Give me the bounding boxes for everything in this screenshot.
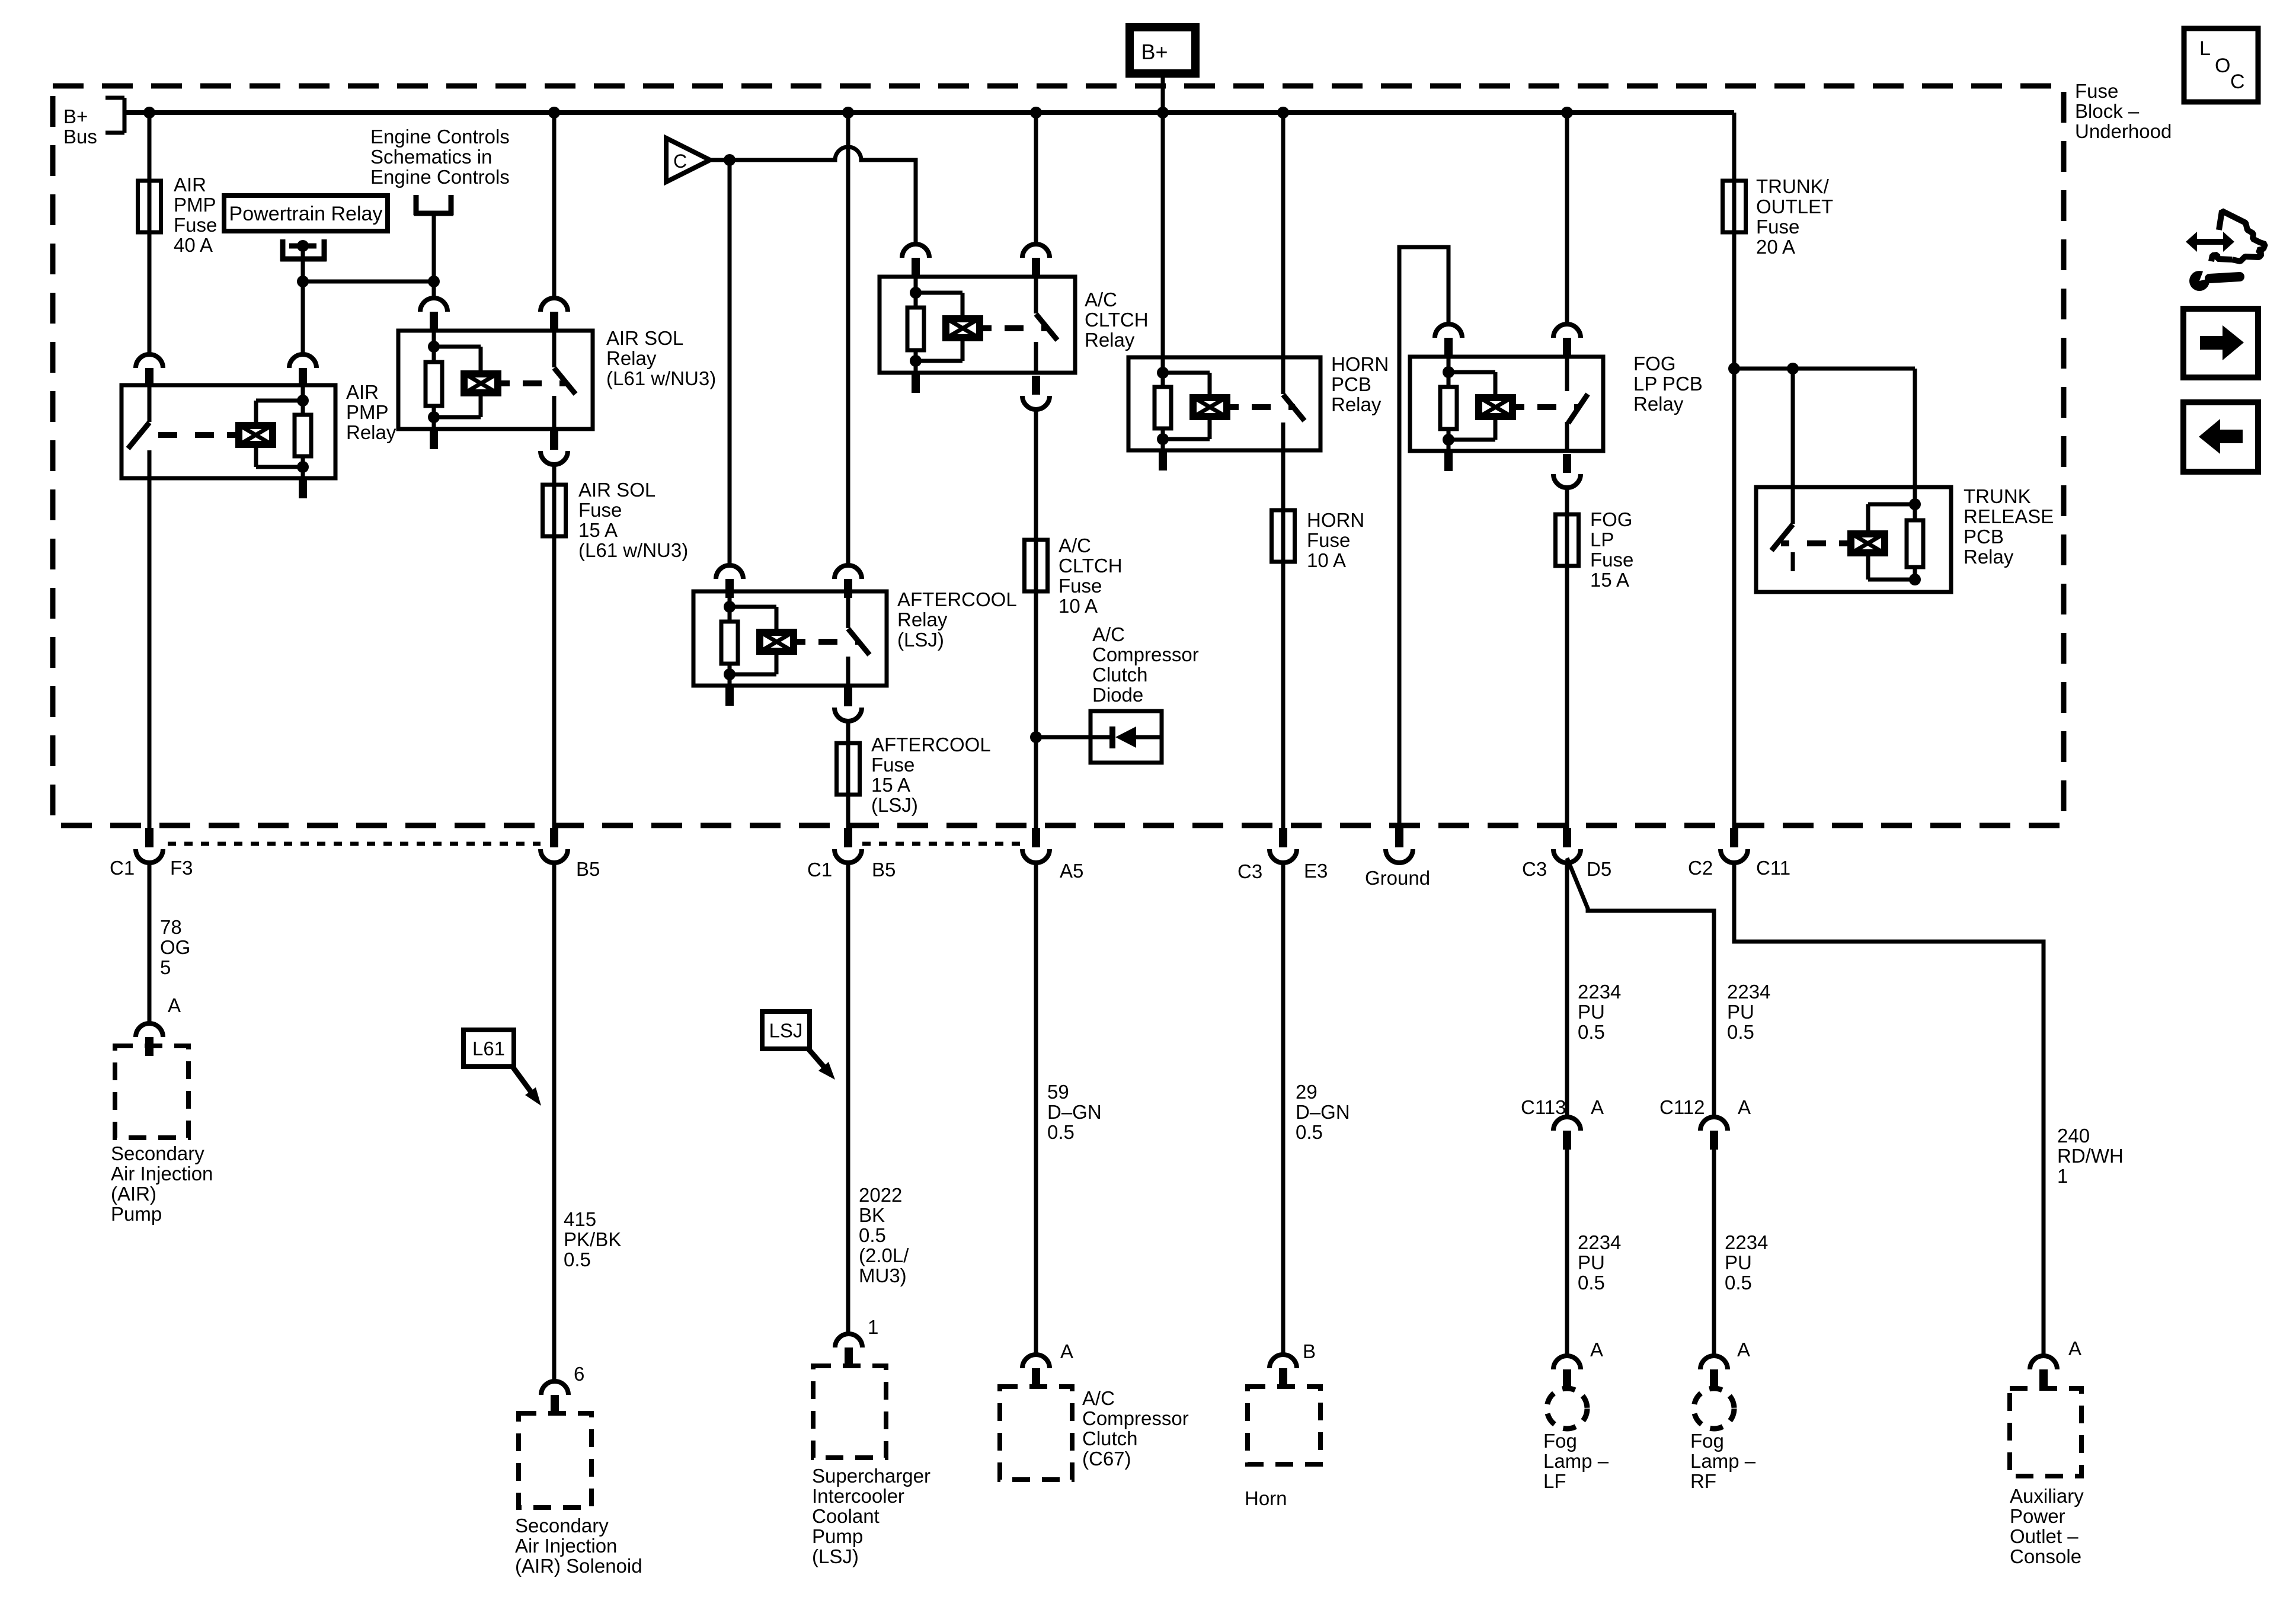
label: AIR PMP Relay [346,381,396,443]
pin: below AIR SOL relay switch [541,431,568,465]
svg-text:Fuse: Fuse [1590,549,1633,571]
svg-text:Fuse: Fuse [871,754,914,776]
wire: to AFTERCOOL fuse [846,721,850,743]
svg-text:RELEASE: RELEASE [1964,505,2054,527]
svg-text:Engine Controls: Engine Controls [370,166,510,188]
svg-text:B5: B5 [872,859,896,881]
fuse block underhood dashed boundary [53,86,2064,825]
svg-text:OG: OG [160,936,190,958]
pin A of A/C compressor clutch [1022,1355,1050,1387]
svg-text:Fuse: Fuse [174,214,217,236]
svg-text:A: A [1737,1339,1750,1361]
pin label A [1590,1339,1603,1361]
wire: AIR PMP fuse to relay pin [148,232,152,354]
pin label A [1738,1096,1751,1118]
svg-text:PMP: PMP [174,194,216,216]
fuse FOG LP Fuse 15 A [1556,514,1579,566]
wire: B+ feed down to HORN relay coil [1161,73,1165,373]
label: HORN Fuse 10 A [1307,509,1364,571]
icon: LOC reference box [2184,28,2258,102]
relay TRUNK RELEASE PCB Relay [1756,487,1951,592]
wire: connector C11 to auxiliary power outlet [1734,864,2044,1356]
pin: AIR PMP relay coil [289,354,316,387]
svg-text:LP: LP [1590,529,1614,550]
svg-text:A/C: A/C [1059,534,1091,556]
B+ power terminal box [1130,27,1195,73]
pin: AFTERCOOL relay switch [834,565,862,598]
label Ground [1365,867,1430,889]
svg-text:E3: E3 [1304,860,1328,882]
svg-text:A5: A5 [1060,860,1083,882]
svg-text:PCB: PCB [1331,373,1371,395]
wire label 2234 PU 0.5 (RF upper) [1727,981,1770,1043]
svg-text:Auxiliary: Auxiliary [2010,1485,2084,1507]
pin A of fog lamp LF [1553,1356,1581,1388]
wire: HORN relay to HORN fuse [1281,450,1285,510]
pin label C11 [1756,857,1790,879]
svg-text:5: 5 [160,956,171,978]
pin label A [168,994,181,1016]
label: AIR SOL Fuse 15 A (L61 w/NU3) [578,479,688,561]
svg-text:0.5: 0.5 [1047,1121,1075,1143]
pin A of connector C112 [1700,1117,1728,1150]
svg-text:C113: C113 [1521,1096,1566,1118]
pin label E3 [1304,860,1328,882]
fuse AIR PMP Fuse 40 A [138,181,161,232]
wire: powertrain relay to AIR PMP relay coil [301,246,305,354]
svg-text:Schematics in: Schematics in [370,146,492,168]
svg-text:CLTCH: CLTCH [1059,555,1123,577]
svg-text:10 A: 10 A [1059,595,1098,617]
component: A/C Compressor Clutch (dashed box) [1000,1387,1072,1480]
wire: connector D5 to C112 (diagonal + across) [1567,858,1714,1118]
svg-text:Powertrain Relay: Powertrain Relay [229,203,383,225]
svg-text:LP PCB: LP PCB [1633,373,1703,395]
svg-text:20 A: 20 A [1756,236,1795,258]
wire label 240 RD/WH 1 [2057,1125,2124,1187]
svg-text:59: 59 [1047,1081,1069,1103]
svg-text:Relay: Relay [1085,329,1135,351]
node C (triangle off-page connector) [666,138,710,182]
wire: to AIR SOL fuse [552,465,557,485]
B+ Bus bracket symbol [105,98,124,133]
svg-text:PK/BK: PK/BK [564,1228,621,1250]
pin 1 of supercharger pump [835,1334,862,1366]
svg-text:0.5: 0.5 [1725,1272,1752,1294]
svg-text:6: 6 [574,1363,584,1385]
svg-text:PMP: PMP [346,401,389,423]
relay FOG LP PCB Relay [1410,357,1603,471]
junction bus/AFTERCOOL relay [842,107,854,119]
wire: to A/C compressor clutch diode [1036,735,1091,740]
wire: connector D5 to C113 [1565,864,1569,1117]
wire: connector E3 to horn [1281,864,1285,1355]
junction trunk relay switch feed [1787,363,1799,375]
svg-text:Console: Console [2010,1545,2081,1567]
pin: below AFTERCOOL relay switch [834,687,862,721]
svg-text:(C67): (C67) [1082,1448,1131,1470]
wire: to A/C CLTCH fuse [1034,409,1038,540]
connector pin B5 at fuse block boundary [541,828,568,863]
pin label 1 [868,1316,878,1338]
svg-text:D5: D5 [1587,858,1611,880]
callout LSJ [762,1012,835,1080]
pin label 6 [574,1363,584,1385]
svg-text:Underhood: Underhood [2075,120,2172,142]
wire: connector B5 to AIR solenoid [552,864,557,1381]
svg-text:0.5: 0.5 [1296,1121,1323,1143]
icon: arrow left box [2183,402,2258,472]
svg-text:PU: PU [1727,1001,1754,1023]
svg-text:Lamp –: Lamp – [1543,1450,1609,1472]
svg-text:TRUNK: TRUNK [1964,485,2031,507]
svg-text:Secondary: Secondary [111,1142,204,1164]
svg-text:Fuse: Fuse [2075,80,2118,102]
label: A/C Compressor Clutch Diode [1092,623,1199,706]
svg-text:C3: C3 [1522,858,1547,880]
svg-text:Relay: Relay [1964,546,2014,568]
svg-text:15 A: 15 A [578,519,618,541]
wire: to trunk relay switch [1791,369,1795,487]
svg-text:A: A [1591,1096,1604,1118]
label: HORN PCB Relay [1331,353,1389,415]
pin label C3 [1522,858,1547,880]
svg-text:B: B [1303,1340,1316,1362]
svg-text:(2.0L/: (2.0L/ [859,1244,909,1266]
relay AIR SOL Relay [398,331,593,449]
wire: HORN fuse to connector C3/E3 [1281,562,1285,828]
pin: AIR SOL relay coil [420,298,447,331]
wire label 2234 PU 0.5 (LF lower) [1578,1231,1621,1294]
svg-text:AIR: AIR [174,174,206,196]
junction trunk fuse / trunk relay feed [1728,363,1740,375]
svg-text:Bus: Bus [63,126,97,148]
pin label A [1060,1340,1073,1362]
svg-text:L: L [2199,37,2211,60]
fuse AFTERCOOL Fuse 15 A [837,743,860,795]
callout L61 [463,1030,541,1106]
junction engine controls wire [428,276,440,287]
wire: AIR SOL fuse to connector B5 [552,536,557,828]
svg-text:A: A [1060,1340,1073,1362]
svg-text:Fog: Fog [1690,1430,1724,1452]
pin label A5 [1060,860,1083,882]
pin A of fog lamp RF [1700,1356,1728,1388]
pin label C3 [1237,860,1262,882]
svg-text:(L61 w/NU3): (L61 w/NU3) [606,367,716,389]
svg-text:Secondary: Secondary [515,1515,609,1537]
svg-text:C2: C2 [1688,857,1713,879]
wire: to FOG LP fuse [1565,488,1569,514]
label: Engine Controls Schematics [370,126,510,188]
label: Fog Lamp - RF [1690,1430,1756,1492]
wire: engine controls to AIR SOL relay coil [432,215,436,298]
wire: bus to A/C CLTCH relay switch [1034,113,1038,244]
label: FOG LP Fuse 15 A [1590,508,1633,591]
svg-text:Coolant: Coolant [812,1505,880,1527]
svg-text:RF: RF [1690,1470,1716,1492]
svg-text:L61: L61 [472,1038,505,1060]
junction bus/AIR PMP fuse [143,107,155,119]
svg-text:FOG: FOG [1590,508,1633,530]
pin label C2 [1688,857,1713,879]
pin: AIR PMP relay switch [136,354,163,387]
svg-text:1: 1 [2057,1165,2068,1187]
junction bus/AC CLTCH relay [1030,107,1042,119]
svg-text:0.5: 0.5 [564,1249,591,1270]
fuse A/C CLTCH Fuse 10 A [1025,540,1048,591]
svg-text:Diode: Diode [1092,684,1143,706]
svg-text:C: C [2230,71,2245,93]
label: A/C CLTCH Fuse 10 A [1059,534,1123,617]
wire: bus to AIR SOL relay switch [552,113,557,298]
wire: bus corner down to TRUNK/OUTLET fuse [1732,113,1737,181]
svg-text:PCB: PCB [1964,526,2004,548]
pin 6 of AIR solenoid [541,1381,568,1414]
svg-text:C: C [673,151,687,172]
svg-text:Pump: Pump [812,1525,863,1547]
pin: FOG relay coil [1435,324,1462,357]
wire: to trunk release relay [1734,367,1915,371]
label: Secondary Air Injection (AIR) Solenoid [515,1515,642,1577]
connector pin C1 / F3 at fuse block boundary [136,828,163,863]
pin label C1 [110,857,135,879]
Powertrain Relay coil bracket symbol [280,239,327,261]
svg-text:Ground: Ground [1365,867,1430,889]
wire: AIR PMP relay output to connector C1/F3 [148,478,152,828]
svg-text:BK: BK [859,1204,885,1226]
relay HORN PCB Relay [1128,357,1320,470]
svg-text:78: 78 [160,916,182,938]
wire label 59 D-GN 0.5 [1047,1081,1102,1143]
component: Secondary Air Injection (AIR) Solenoid (dashed box) [519,1413,591,1507]
svg-text:AIR SOL: AIR SOL [606,327,683,349]
svg-text:A: A [1738,1096,1751,1118]
svg-text:2234: 2234 [1578,981,1621,1003]
pin: A/C CLTCH relay coil [902,244,929,277]
pin label C112 [1659,1096,1705,1118]
svg-text:0.5: 0.5 [1578,1272,1605,1294]
fuse HORN Fuse 10 A [1272,510,1295,562]
wire: connector B5 to supercharger pump [846,864,850,1334]
svg-text:15 A: 15 A [871,774,910,796]
svg-text:AFTERCOOL: AFTERCOOL [897,588,1017,610]
svg-text:Air Injection: Air Injection [111,1163,213,1185]
wire: C113 to fog lamp LF [1565,1150,1569,1356]
label: AFTERCOOL Relay (LSJ) [897,588,1017,651]
relay AFTERCOOL Relay [693,591,887,706]
svg-text:0.5: 0.5 [1578,1021,1605,1043]
svg-text:C3: C3 [1237,860,1262,882]
pin label B5 [576,858,600,880]
wire label 78 OG 5 [160,916,190,978]
svg-text:2234: 2234 [1578,1231,1621,1253]
svg-text:Compressor: Compressor [1082,1407,1189,1429]
svg-text:(LSJ): (LSJ) [871,794,918,816]
component: Fog Lamp - LF (dashed circle) [1547,1388,1587,1429]
svg-text:415: 415 [564,1208,596,1230]
svg-text:HORN: HORN [1331,353,1389,375]
connector pin C3 / E3 at fuse block boundary [1269,828,1297,863]
svg-text:240: 240 [2057,1125,2090,1147]
wire label 29 D-GN 0.5 [1296,1081,1350,1143]
svg-text:Fuse: Fuse [1059,575,1102,597]
wire label 2234 PU 0.5 (LF upper) [1578,981,1621,1043]
svg-text:29: 29 [1296,1081,1318,1103]
svg-text:Relay: Relay [346,421,396,443]
svg-text:A: A [2068,1337,2081,1359]
pin A of connector C113 [1553,1117,1581,1150]
connector pin C1 / B5 at fuse block boundary [834,828,862,863]
svg-text:FOG: FOG [1633,353,1676,375]
svg-text:Lamp –: Lamp – [1690,1450,1756,1472]
label: Fuse Block - Underhood [2075,80,2172,142]
svg-text:2234: 2234 [1727,981,1770,1003]
svg-text:(LSJ): (LSJ) [897,629,944,651]
label: A/C Compressor Clutch (C67) [1082,1387,1189,1470]
svg-text:D–GN: D–GN [1047,1101,1102,1123]
pin: below A/C CLTCH relay switch [1022,376,1050,409]
pin label C1 [807,859,832,881]
svg-text:PU: PU [1578,1001,1605,1023]
pin: A/C CLTCH relay switch [1022,244,1050,277]
svg-text:O: O [2215,55,2230,77]
pin A of AIR pump [136,1023,163,1056]
label: Horn [1245,1487,1287,1509]
svg-text:A/C: A/C [1092,623,1125,645]
connector C1 dotted link B5-A5 [862,842,1022,846]
svg-text:C112: C112 [1659,1096,1705,1118]
label: Supercharger Intercooler Coolant Pump (LSJ) [812,1465,930,1567]
wire: bus to AIR PMP fuse [148,113,152,181]
svg-text:Intercooler: Intercooler [812,1485,904,1507]
label: Secondary Air Injection (AIR) Pump [111,1142,213,1225]
svg-text:F3: F3 [170,857,193,879]
wire: connector F3 to AIR pump [148,864,152,1023]
wire: AFTERCOOL fuse to connector C1/B5 [846,795,850,828]
fuse TRUNK/OUTLET Fuse 20 A [1723,181,1746,232]
svg-text:0.5: 0.5 [1727,1021,1754,1043]
svg-text:(AIR) Solenoid: (AIR) Solenoid [515,1555,642,1577]
pin: FOG relay switch [1553,324,1581,357]
junction bus/HORN relay [1277,107,1289,119]
svg-text:HORN: HORN [1307,509,1364,531]
component: Supercharger Intercooler Coolant Pump (dashed box) [813,1366,886,1458]
svg-text:10 A: 10 A [1307,549,1346,571]
svg-text:Relay: Relay [1331,393,1382,415]
label: AFTERCOOL Fuse 15 A (LSJ) [871,734,991,816]
pin label B [1303,1340,1316,1362]
svg-text:Outlet –: Outlet – [2010,1525,2078,1547]
svg-text:TRUNK/: TRUNK/ [1756,175,1830,197]
svg-text:Relay: Relay [1633,393,1684,415]
component: Auxiliary Power Outlet - Console (dashed box) [2010,1388,2081,1476]
connector pin Ground at fuse block boundary [1386,828,1413,863]
svg-text:Horn: Horn [1245,1487,1287,1509]
label: Fog Lamp - LF [1543,1430,1609,1492]
svg-text:A: A [1590,1339,1603,1361]
wire: B+ bus [124,110,1734,115]
connector pin C3 / D5 at fuse block boundary [1553,828,1581,863]
label: AIR SOL Relay (L61 w/NU3) [606,327,716,389]
svg-text:CLTCH: CLTCH [1085,309,1149,331]
pin label F3 [170,857,193,879]
svg-text:Fuse: Fuse [1307,529,1350,551]
pin B of horn [1269,1355,1297,1387]
wire: C to AFTERCOOL relay coil [728,160,732,566]
svg-text:PU: PU [1725,1251,1752,1273]
svg-text:A/C: A/C [1085,289,1117,311]
pin A of auxiliary power outlet [2030,1356,2057,1388]
wire: FOG LP fuse to connector C3/D5 [1565,566,1569,828]
svg-text:LSJ: LSJ [769,1020,803,1042]
label: AIR PMP Fuse 40 A [174,174,217,256]
Engine Controls connection bracket symbol [414,195,453,215]
svg-text:Compressor: Compressor [1092,644,1199,665]
svg-text:B5: B5 [576,858,600,880]
label: TRUNK/OUTLET Fuse 20 A [1756,175,1833,258]
svg-text:Fuse: Fuse [578,499,622,521]
svg-text:Fuse: Fuse [1756,216,1799,238]
wire label 2234 PU 0.5 (RF lower) [1725,1231,1768,1294]
label: Auxiliary Power Outlet - Console [2010,1485,2084,1567]
fuse AIR SOL Fuse 15 A [543,485,566,536]
diode: A/C Compressor Clutch Diode [1091,711,1162,763]
wire: C112 to fog lamp RF [1712,1150,1716,1356]
wire: C to A/C CLTCH relay coil (with hop over AFTERCOOL wire) [709,147,916,244]
junction B+ / bus [1157,107,1169,119]
pin label B5 [872,859,896,881]
component: Horn (dashed box) [1248,1387,1320,1464]
svg-text:(AIR): (AIR) [111,1183,156,1205]
label: A/C CLTCH Relay [1085,289,1149,351]
svg-text:1: 1 [868,1316,878,1338]
svg-text:AFTERCOOL: AFTERCOOL [871,734,991,756]
junction C wire / AFTERCOOL coil drop [724,154,736,166]
pin: AIR SOL relay switch [541,298,568,331]
junction powertrain/engine-controls wire [297,276,309,287]
pin label D5 [1587,858,1611,880]
wire label 415 PK/BK 0.5 [564,1208,621,1270]
wire: bus to HORN relay switch [1281,113,1285,357]
junction bus/FOG relay [1561,107,1573,119]
svg-text:B+: B+ [1141,40,1168,64]
svg-text:(L61 w/NU3): (L61 w/NU3) [578,539,688,561]
label: B+ Bus [63,105,97,148]
svg-text:Engine Controls: Engine Controls [370,126,510,148]
svg-text:LF: LF [1543,1470,1566,1492]
svg-text:MU3): MU3) [859,1265,907,1286]
connector C1 dotted link F3-B5 [168,842,541,846]
pin label A [2068,1337,2081,1359]
pin: AFTERCOOL relay coil [716,565,743,598]
svg-text:Power: Power [2010,1505,2065,1527]
component: Secondary Air Injection (AIR) Pump (dashed box) [115,1046,188,1138]
wire: to trunk relay coil [1913,369,1917,507]
svg-text:Clutch: Clutch [1092,664,1148,686]
wire: FOG relay coil to Ground [1399,247,1448,828]
wire label 2022 BK 0.5 (2.0L/MU3) [859,1184,909,1286]
svg-text:D–GN: D–GN [1296,1101,1350,1123]
svg-text:C1: C1 [807,859,832,881]
svg-text:Pump: Pump [111,1203,162,1225]
svg-text:AIR: AIR [346,381,379,403]
junction bus/AIR SOL relay [548,107,560,119]
wire: TRUNK/OUTLET fuse to connector C2/C11 [1732,232,1737,828]
wire: bus to AFTERCOOL relay switch [846,113,850,566]
component: Fog Lamp - RF (dashed circle) [1694,1388,1734,1429]
svg-text:C11: C11 [1756,857,1790,879]
